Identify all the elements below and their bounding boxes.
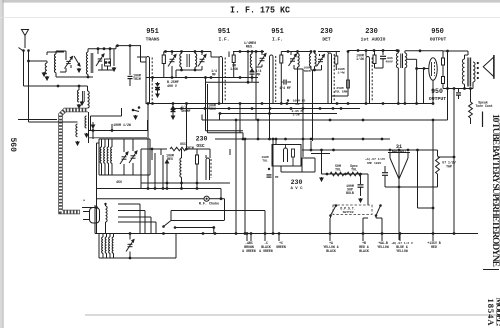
wire RF T1 top xyxy=(56,50,66,52)
svg-text:+A(-67 1/2V: +A(-67 1/2V xyxy=(365,157,385,161)
tuning capacitor gang 1 xyxy=(97,49,99,54)
coil osc box 3 xyxy=(107,147,108,163)
svg-text:400MF: 400MF xyxy=(181,109,191,113)
trimmer osc box b xyxy=(131,155,136,157)
grid resistor box output xyxy=(442,77,445,84)
tube V5 230 1st AUDIO envelope xyxy=(366,57,370,104)
wire bus y188.5 xyxy=(97,188,222,190)
wire power bus y150 xyxy=(302,149,438,151)
coil osc D xyxy=(85,116,87,128)
trimmer low box xyxy=(128,243,133,245)
coil low box 3 xyxy=(109,237,110,253)
svg-text:TAP: TAP xyxy=(446,165,452,169)
wire avc to resistor row xyxy=(311,153,330,155)
coil osc box 1 xyxy=(100,147,101,163)
svg-text:I.F.: I.F. xyxy=(272,37,283,43)
wire interstage top bus link xyxy=(405,50,443,52)
tube V4 230 DET envelope xyxy=(328,53,332,104)
resistor box IFT2 left xyxy=(232,55,235,63)
wire RF T1 bottom xyxy=(56,76,93,78)
wire antenna to ground coil xyxy=(29,60,48,62)
coil RF T1 primary xyxy=(54,54,56,73)
battery stub +B xyxy=(362,234,364,242)
coil det IFT secondary a xyxy=(309,54,311,67)
wire tap top to right xyxy=(438,156,455,158)
coil interstage primary xyxy=(396,53,398,68)
battery stub +A xyxy=(329,234,331,242)
label 100M ES TOL xyxy=(287,99,289,101)
wire bus y120 right xyxy=(202,119,448,121)
svg-text:951: 951 xyxy=(146,28,159,36)
coil osc box 2 xyxy=(104,147,105,163)
wire bus y139 xyxy=(215,138,390,140)
trimmer osc box a xyxy=(122,156,127,158)
trimmer capacitor IFT1 secondary xyxy=(201,52,203,56)
svg-text:BLACK: BLACK xyxy=(359,249,369,253)
vertical ground left xyxy=(321,150,323,174)
RF choke xyxy=(204,196,209,201)
capacitor coupling det xyxy=(283,80,285,85)
wire audio bottom xyxy=(375,67,384,69)
wire 417 vertical xyxy=(417,150,419,208)
wire right long vertical xyxy=(453,89,455,234)
trimmer capacitor det IFT primary xyxy=(290,52,292,56)
svg-text:951: 951 xyxy=(271,28,284,36)
core RF T2 xyxy=(90,53,92,73)
trim capacitor right xyxy=(129,46,131,75)
resistor det small box xyxy=(347,80,350,88)
cathode bias tube2 xyxy=(172,111,174,113)
wire y88.5 output xyxy=(443,88,473,90)
wire ballast down xyxy=(398,179,400,240)
svg-text:1/2W: 1/2W xyxy=(292,113,299,117)
svg-text:4MF 100V: 4MF 100V xyxy=(367,162,382,165)
ballast tube xyxy=(388,152,410,154)
svg-text:I. F. 175 KC: I. F. 175 KC xyxy=(230,5,290,16)
capacitor avc left xyxy=(268,168,270,170)
tube V4 plate box xyxy=(335,56,338,64)
svg-text:TOL: TOL xyxy=(262,160,268,163)
DPST switch box xyxy=(333,205,372,215)
coil IFT2 xyxy=(250,54,252,68)
wire det winding bottom xyxy=(311,69,322,71)
page left grey edge xyxy=(0,0,2,328)
svg-text:230: 230 xyxy=(291,179,303,186)
battery stub -ABC xyxy=(246,234,248,242)
wire IFT2 top bus xyxy=(233,51,264,53)
svg-text:RED: RED xyxy=(431,245,437,249)
coil OPT secondary xyxy=(473,62,475,82)
trimmer capacitor det sec xyxy=(319,54,321,56)
wire IFT1 bottoms xyxy=(176,69,202,71)
battery stub +135 xyxy=(432,234,434,242)
wire avc down to bus xyxy=(310,141,312,150)
resistor 50M TOL xyxy=(330,172,344,176)
coil det IFT primary xyxy=(298,54,300,68)
battery stub +A-B xyxy=(381,234,383,242)
coil osc choke vertical xyxy=(180,158,182,177)
tube V2 951 IF envelope xyxy=(219,57,223,104)
AVC lower shelf xyxy=(280,166,282,172)
wire bus y137.8 xyxy=(89,137,148,139)
wire bus y84 xyxy=(205,81,259,83)
svg-text:MF: MF xyxy=(212,73,216,77)
svg-text:MF: MF xyxy=(275,176,279,179)
speaker cone xyxy=(483,57,494,77)
wire interstage tap xyxy=(407,58,417,60)
svg-text:TOL: TOL xyxy=(294,103,300,106)
wire bus y103.5 xyxy=(146,103,433,105)
wire stage2 upper bus xyxy=(116,45,141,47)
svg-text:GREEN: GREEN xyxy=(276,245,286,249)
arrow osc coil A xyxy=(78,104,80,108)
svg-text:& GREEN: & GREEN xyxy=(242,249,255,253)
ground coil primary xyxy=(45,63,47,74)
wire baseline xyxy=(95,233,478,235)
resistor osc horizontal xyxy=(170,147,186,151)
antenna xyxy=(22,30,29,36)
padder capacitor xyxy=(105,59,111,66)
faint rule under title xyxy=(0,17,500,19)
antenna switch xyxy=(19,48,25,52)
coil RF T2 primary xyxy=(86,52,88,74)
trimmer capacitor RF T1 xyxy=(66,60,71,62)
svg-text:951: 951 xyxy=(218,28,231,36)
resistor SPEC TOL xyxy=(347,172,361,176)
svg-text:OSC: OSC xyxy=(180,142,186,146)
tube V6 950 OUTPUT envelope xyxy=(429,58,437,80)
wire bus y113.5 xyxy=(219,113,338,115)
svg-text:OSC: OSC xyxy=(196,143,205,149)
wire bus y198.7 through choke xyxy=(97,198,205,200)
svg-text:TOL: TOL xyxy=(351,168,357,172)
wire stage2 top bus xyxy=(88,48,116,50)
wire osc mid bus xyxy=(97,142,100,144)
coil osc antenna A xyxy=(78,90,80,102)
tube V1 plate resistor box xyxy=(162,55,165,64)
svg-text:230: 230 xyxy=(320,28,333,36)
svg-text:230: 230 xyxy=(365,28,378,36)
wire IFT1 top bus xyxy=(164,51,211,53)
wire det IFT box1 bottom xyxy=(293,67,295,69)
tube V8 plate box xyxy=(292,149,295,157)
band switch xyxy=(132,109,135,112)
wire below cable corner xyxy=(88,112,90,143)
diode arrow osc xyxy=(166,160,168,168)
switch power 1 xyxy=(329,214,332,217)
wire bus y130.5 xyxy=(89,130,148,132)
core osc antenna xyxy=(82,91,84,102)
trimmer capacitor RF T1 b xyxy=(74,56,80,66)
tube V7 osc envelope xyxy=(206,158,210,180)
resistor box osc xyxy=(196,155,199,164)
core OPT xyxy=(467,58,472,87)
tube V6 grid wire xyxy=(417,68,429,70)
wire small y207 xyxy=(82,207,97,209)
wire output screen vertical xyxy=(447,51,449,120)
svg-text:100M 1/2W: 100M 1/2W xyxy=(113,123,131,127)
svg-text:230: 230 xyxy=(196,136,208,143)
wire bus y108.5 xyxy=(172,108,360,110)
wire osc verticals mid xyxy=(186,104,188,149)
wire stage2 bottoms xyxy=(98,69,114,71)
core interstage xyxy=(400,54,402,69)
coil OPT primary xyxy=(462,59,464,84)
tube V8 AVC envelope xyxy=(284,148,288,162)
svg-text:YELLOW: YELLOW xyxy=(396,249,408,253)
wire tube1 grid top xyxy=(137,56,146,58)
tube V1 951 TRANS envelope xyxy=(146,57,150,104)
wire antenna lead B xyxy=(28,51,30,123)
wire output grid drop xyxy=(423,69,425,104)
svg-text:RES: RES xyxy=(167,157,173,161)
battery stub +C xyxy=(278,234,280,242)
svg-text:a: a xyxy=(83,199,85,202)
wire bus y77.5 xyxy=(146,77,258,79)
wire bus y120 left xyxy=(18,119,57,121)
resistor box audio xyxy=(373,55,376,64)
svg-text:400 V: 400 V xyxy=(167,84,177,88)
svg-text:I.F.: I.F. xyxy=(218,37,229,43)
svg-text:400V: 400V xyxy=(386,61,393,64)
coil low box 1 xyxy=(102,237,103,253)
wire interstage secondary bottom xyxy=(404,68,406,103)
wire osc bottom verticals xyxy=(166,168,168,183)
wire IFT2 mid xyxy=(256,66,262,68)
svg-text:OUTPUT: OUTPUT xyxy=(430,37,447,43)
resistor det grid leak xyxy=(347,52,349,97)
svg-text:TRIM: TRIM xyxy=(208,107,216,111)
svg-text:TOL GRN: TOL GRN xyxy=(335,91,348,94)
svg-text:DET: DET xyxy=(322,37,331,43)
tube V6 filament xyxy=(431,62,433,76)
wire avc box top feeds xyxy=(275,139,277,145)
switch power 2 xyxy=(375,214,378,217)
wire bus into tube1 grid xyxy=(140,46,142,62)
oscillator box outline xyxy=(99,138,150,140)
wire osc box leads xyxy=(101,139,103,147)
battery stub +B67 xyxy=(399,234,401,242)
wire tube3 plate down xyxy=(280,68,282,104)
resistor speaker tone xyxy=(470,89,472,103)
wire y220 xyxy=(171,220,225,222)
tube V3 951 IF envelope xyxy=(270,55,274,104)
tuner box corner xyxy=(91,115,122,117)
lower coil box outline xyxy=(94,205,96,234)
coil low box 2 xyxy=(105,237,106,253)
resistor 67V tap xyxy=(437,150,439,156)
capacitor small left of OPT xyxy=(458,89,460,93)
plate resistor box output xyxy=(442,58,445,65)
wire low box leads xyxy=(102,234,104,238)
capacitor audio coupling xyxy=(382,51,384,56)
wire det IFT drops xyxy=(297,69,299,104)
wire y227.5 xyxy=(175,227,214,229)
wire tube2 column down xyxy=(205,78,207,85)
switch osc blade xyxy=(162,225,165,228)
svg-text:SWITCH: SWITCH xyxy=(343,211,354,214)
wire osc frame drops xyxy=(147,104,149,189)
AVC box outline xyxy=(272,145,301,167)
arrow small left xyxy=(92,125,94,128)
wire IFT1 secondary to tube2 xyxy=(210,52,212,58)
wire audio top bus xyxy=(348,50,397,52)
plug at cable end xyxy=(90,208,100,224)
arrow below RF T1 xyxy=(78,68,80,72)
wire det bottom loop xyxy=(332,95,349,97)
battery stub -C xyxy=(264,234,266,242)
svg-text:1st AUDIO: 1st AUDIO xyxy=(361,37,386,43)
wire antenna leadB to coil C xyxy=(29,121,78,123)
svg-text:TRIM: TRIM xyxy=(303,70,310,73)
wire antenna lead A xyxy=(23,51,25,87)
grid lead arrow xyxy=(113,49,115,66)
svg-text:1/4W: 1/4W xyxy=(337,71,344,75)
tube V3 plate box xyxy=(280,55,283,63)
wire osc left verticals xyxy=(92,122,94,139)
wire y174 xyxy=(322,173,369,175)
wire 135V drop xyxy=(432,120,434,240)
AVC inner leads xyxy=(285,145,287,149)
coil low box 4 xyxy=(112,237,113,253)
svg-text:MF: MF xyxy=(257,72,261,76)
svg-text:1/4W: 1/4W xyxy=(230,67,238,71)
bias cell IFT2 xyxy=(250,69,253,72)
osc section frame xyxy=(141,148,167,150)
wire right of y174 down xyxy=(367,174,369,205)
svg-text:10 TUBE BATTERY SUPERHETERODYN: 10 TUBE BATTERY SUPERHETERODYNE xyxy=(490,114,500,267)
tube V2 plate lead xyxy=(228,52,230,58)
coil osc lower C xyxy=(76,124,78,137)
cathode resistor tube1 xyxy=(152,78,154,81)
svg-text:BLACK: BLACK xyxy=(326,249,336,253)
arrow below primary xyxy=(46,76,48,80)
terminal dots column xyxy=(477,62,479,64)
hatched shielded cable xyxy=(61,110,89,212)
svg-text:1854A: 1854A xyxy=(486,299,496,327)
svg-text:& GREEN: & GREEN xyxy=(259,249,272,253)
coil det IFT secondary b xyxy=(315,54,317,67)
coil E right of plug xyxy=(106,206,108,222)
svg-text:RES.: RES. xyxy=(246,46,254,50)
coil interstage secondary xyxy=(405,53,407,68)
svg-text:1/4W: 1/4W xyxy=(356,57,364,61)
wire det IFT top bus xyxy=(281,51,312,53)
coil osc box 4 xyxy=(111,147,112,163)
svg-text:OUTPUT: OUTPUT xyxy=(429,96,446,102)
rule left of rotated heading xyxy=(482,112,484,128)
capacitor sup bulb xyxy=(360,174,362,184)
stepped feeder wires xyxy=(118,203,140,205)
underline below rotated heading xyxy=(483,269,499,271)
wire +B stub feed xyxy=(362,218,364,234)
svg-text:YELLOW: YELLOW xyxy=(377,245,389,249)
coil IFT1 secondary xyxy=(195,54,197,68)
svg-text:BULB: BULB xyxy=(346,191,354,195)
vertical drops cluster left of AVC xyxy=(239,104,241,134)
svg-text:TRIM: TRIM xyxy=(133,77,141,81)
svg-text:950: 950 xyxy=(431,28,444,36)
core IFT1 xyxy=(186,54,188,67)
wire y187 bus xyxy=(385,186,438,188)
wire y133 jog pair xyxy=(205,84,207,131)
coil osc antenna B xyxy=(88,91,90,108)
svg-text:A V C: A V C xyxy=(290,187,303,191)
svg-text:456: 456 xyxy=(116,181,122,185)
wire osc out xyxy=(209,149,211,158)
wire top left bus xyxy=(47,51,64,53)
wire OPT top link xyxy=(467,51,469,55)
svg-text:TOL: TOL xyxy=(335,168,341,172)
trimmer capacitor IFT2 xyxy=(261,52,263,56)
wire output top bus xyxy=(443,50,468,52)
svg-text:TRANS: TRANS xyxy=(146,37,160,43)
svg-text:Tone Cont: Tone Cont xyxy=(475,104,492,108)
svg-text:R.F. Choke: R.F. Choke xyxy=(199,202,219,207)
svg-text:560: 560 xyxy=(8,138,17,153)
bias cell tube1 xyxy=(157,90,159,92)
coil IFT1 primary xyxy=(180,54,182,68)
grey rule bottom xyxy=(85,314,500,316)
page top grey edge xyxy=(0,0,500,3)
trimmer capacitor IFT1 primary xyxy=(171,52,173,56)
capacitor 4MF xyxy=(384,166,386,172)
wire det top bus xyxy=(318,51,340,53)
